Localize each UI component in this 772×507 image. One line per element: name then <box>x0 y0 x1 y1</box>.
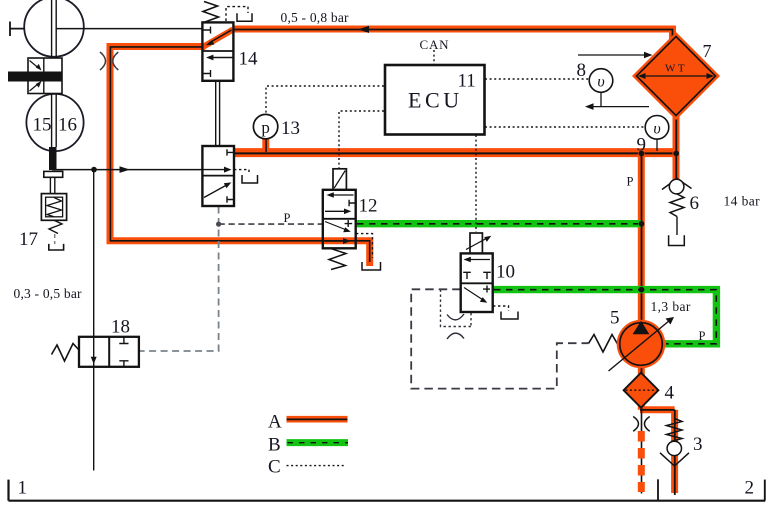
pressure gauge 13 <box>253 114 277 138</box>
svg-text:C: C <box>268 457 281 478</box>
air flow arrow into WT <box>578 54 647 56</box>
component 17 spring cartridge <box>41 194 66 221</box>
valve 10 solenoid <box>470 233 482 254</box>
wire: pipe A diagonal inside valve 14 <box>202 30 233 48</box>
valve 18 body fill <box>79 337 139 367</box>
valve 14 top cell port <box>202 27 210 34</box>
hose coupling )( on left return pipe <box>100 52 118 70</box>
svg-text:8: 8 <box>577 60 587 81</box>
junction dot at engine line <box>91 167 97 173</box>
valve 12 body fill <box>323 190 356 249</box>
svg-text:υ: υ <box>653 120 660 137</box>
svg-text:15: 15 <box>33 115 52 136</box>
svg-text:6: 6 <box>690 193 700 214</box>
wire: long vertical line from engine junction down <box>93 170 95 471</box>
wire: signal C from CAN label to ECU <box>433 50 435 64</box>
rod double lines <box>50 177 54 193</box>
wire: dark dashed pilot loop valve 10 to pump spring <box>411 289 588 388</box>
valve 14 pilot tank bracket <box>237 13 252 21</box>
main valve bottom cell diagonal arrow <box>204 185 228 198</box>
svg-text:p: p <box>261 118 270 137</box>
valve 12 solenoid <box>333 169 346 190</box>
svg-text:10: 10 <box>496 262 515 283</box>
shaft double lines <box>52 0 57 147</box>
wire: pipe A left return loop (valve 14 left, down, right into valve 12) <box>110 47 370 267</box>
engine top circle <box>24 0 84 57</box>
tank bracket below component 17 <box>49 244 64 250</box>
mechanical link valve 14 to main valve <box>216 81 220 146</box>
wire: pipe B green from valve 10 to pump 5 control <box>493 290 717 344</box>
svg-text:CAN: CAN <box>420 37 450 52</box>
wire: drain pilot of valve 12 dotted <box>356 234 373 258</box>
valve 10 cell1 left arrow <box>468 259 491 261</box>
svg-text:3: 3 <box>693 434 703 455</box>
svg-text:16: 16 <box>58 115 77 136</box>
wire: component 17 dashed stub <box>54 234 56 244</box>
wire: valve 10 mechanical dotted link with hose coupling <box>441 290 472 327</box>
frame middle tick <box>657 479 659 500</box>
pump 5 body <box>617 320 666 369</box>
valve 12 cell2 orange passage arrow <box>325 240 345 242</box>
wire: pump 5 outlet to filter diamond 4 <box>638 366 645 376</box>
svg-text:P: P <box>284 211 291 225</box>
svg-text:4: 4 <box>665 383 675 404</box>
valve 10 cell2 diagonal arrow <box>464 288 484 301</box>
pump 5 variable arrow <box>609 321 670 372</box>
flow arrow on top pipe <box>358 26 369 33</box>
air flow arrow out of WT <box>590 92 649 106</box>
valve 10 body <box>461 253 493 312</box>
main valve top-right port <box>227 149 234 155</box>
relief valve 6 spring <box>670 194 684 217</box>
relief valve 6 ball circle <box>669 179 684 194</box>
wire: gray pilot line main valve / valve 12 / valve 18 <box>139 207 219 352</box>
wire: pressure gauge 13 stem <box>262 138 269 152</box>
svg-text:υ: υ <box>597 74 604 91</box>
valve 12 cell1 right arrow <box>325 210 347 212</box>
svg-text:14: 14 <box>239 49 259 70</box>
valve 10 cell1 ports <box>463 272 491 279</box>
valve 12 cell2 diagonal arrow <box>325 222 347 231</box>
relief valve 6 tank bracket <box>669 235 685 245</box>
main valve bottom-right port <box>227 196 234 202</box>
valve 12 spring <box>329 248 346 269</box>
shaft end T-bar left <box>10 22 25 37</box>
valve 12 cell2 cross port <box>345 220 353 227</box>
valve 14 bottom cell arrow <box>210 57 233 59</box>
svg-text:A: A <box>268 412 282 433</box>
fan circle 15|16 <box>26 94 83 151</box>
wire: engine output shaft line to main valve <box>52 169 202 171</box>
wire: signal C from ECU to temperature sensor 9 <box>485 126 645 128</box>
wire: signal C from ECU down to valve 10 solenoid <box>475 135 477 232</box>
svg-text:11: 11 <box>458 71 476 92</box>
svg-text:13: 13 <box>281 118 300 139</box>
wire: shaft line from engine to valve 14 <box>56 28 202 30</box>
wire: drain pilot of valve 10 dotted <box>493 306 509 311</box>
wire: pipe A from heat exchanger 7 down to relief valve 6 <box>673 112 680 180</box>
valve 18 spring <box>52 344 80 362</box>
wire: pipe B green from valve 12 to pump riser <box>356 220 641 227</box>
wire: drain pilot of main valve to tank bracket <box>234 170 249 175</box>
valve 18 body <box>79 337 139 367</box>
svg-text:5: 5 <box>610 308 620 329</box>
wire: signal C from ECU to temperature sensor 8 <box>485 78 589 80</box>
flywheel thick bar <box>8 72 62 82</box>
main control valve body <box>202 146 234 206</box>
valve 19 (main control valve) body fill <box>202 146 234 206</box>
gray junction dot <box>216 222 221 227</box>
wire: signal C from ECU to pressure gauge 13 <box>266 86 384 114</box>
valve 12 cell1 left arrow <box>331 194 354 196</box>
clutch arrows <box>30 61 39 69</box>
main valve arrow <box>202 169 227 171</box>
wire: suction line below diamond 4 (black core) <box>641 407 643 494</box>
ECU box 11 <box>385 65 485 135</box>
svg-text:1: 1 <box>18 478 28 499</box>
check valve 3 ball <box>667 441 681 455</box>
wire: pipe A from diamond 4 to check valve 3 branch <box>640 404 675 493</box>
frame left tick <box>7 480 9 501</box>
relief valve 6 seat <box>662 179 692 190</box>
valve 12 cell1 right port <box>349 200 356 207</box>
wire: pipe A main distribution line at y153 <box>234 148 676 157</box>
spring below component 17 <box>49 220 62 233</box>
temperature sensor 8 <box>589 69 613 93</box>
wire: signal C from ECU to valve 12 solenoid <box>339 111 384 168</box>
wire: valve 14 pilot dashed to drain <box>226 7 248 21</box>
valve 12 drain tank bracket <box>362 262 381 270</box>
svg-text:2: 2 <box>745 478 755 499</box>
valve 14 body fill <box>202 22 233 80</box>
valve 10 drain tank bracket <box>501 312 518 320</box>
svg-text:17: 17 <box>19 229 38 250</box>
check valve 3 spring <box>667 419 683 442</box>
anchor bar of component 17 <box>44 171 63 177</box>
valve 10 body fill <box>461 253 493 312</box>
valve 14 body <box>202 22 233 80</box>
svg-text:14 bar: 14 bar <box>724 194 761 209</box>
hose coupling arcs below valve 10 <box>447 314 464 339</box>
valve 18 arrow down <box>91 357 97 364</box>
svg-text:18: 18 <box>111 317 130 338</box>
valve 14 bottom cell port <box>202 70 210 77</box>
junction dots on pipes <box>639 151 645 157</box>
frame bottom line <box>9 500 766 502</box>
drain tank bracket of main valve <box>242 175 258 183</box>
svg-text:WT: WT <box>665 63 687 75</box>
svg-text:7: 7 <box>703 41 712 61</box>
svg-text:P: P <box>699 329 706 343</box>
heat exchanger 7 (WT diamond) <box>632 32 720 120</box>
valve 18 right cell ports <box>119 337 128 367</box>
hose coupling )( on suction line <box>633 417 650 432</box>
frame right tick <box>764 480 766 501</box>
check valve 3 seat <box>660 453 689 466</box>
svg-text:0,3 - 0,5 bar: 0,3 - 0,5 bar <box>14 286 83 301</box>
valve 14 spring <box>203 2 219 23</box>
shaft thick stub below fan <box>49 147 57 170</box>
pump 5 flow triangle <box>633 321 650 335</box>
svg-text:B: B <box>268 435 281 456</box>
wire: pipe A riser from main line down to pump 5 <box>638 153 645 322</box>
svg-text:0,5 - 0,8 bar: 0,5 - 0,8 bar <box>281 10 350 25</box>
temperature sensor 9 <box>656 139 658 151</box>
svg-text:12: 12 <box>359 196 378 217</box>
wire: suction line orange dashed <box>638 431 645 492</box>
svg-text:1,3 bar: 1,3 bar <box>651 299 691 314</box>
relief valve 6 drain line <box>676 217 678 236</box>
arrow on engine output line <box>120 166 131 173</box>
valve 14 arrow on diagonal <box>209 30 232 43</box>
pump 5 spring <box>589 335 618 353</box>
svg-text:ECU: ECU <box>408 88 463 113</box>
clutch box <box>28 58 62 94</box>
valve 12 body <box>323 190 356 249</box>
wire: pipe A top (0,5-0,8 bar line from valve 14 to heat exchanger 7) <box>233 29 673 48</box>
svg-text:P: P <box>627 175 634 189</box>
filter diamond 4 <box>624 373 659 408</box>
valve 10 cell2 port <box>483 286 490 293</box>
